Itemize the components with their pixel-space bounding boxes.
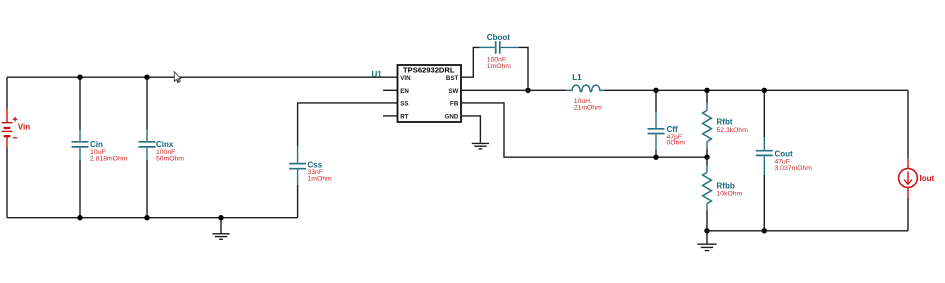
junction Rfbt top <box>704 88 709 93</box>
svg-text:RT: RT <box>400 114 408 121</box>
wire Iout bottom to ground rail <box>907 198 909 231</box>
wire left rail lower (Vin- to ground rail) <box>6 148 8 218</box>
wire VOUT net top (L1 to load corner) <box>605 89 908 91</box>
ground input rail <box>212 218 229 240</box>
ground U1 GND <box>472 143 489 149</box>
label Cboot value <box>487 33 512 70</box>
svg-text:Cin: Cin <box>90 140 103 149</box>
label Rfbt value <box>717 118 749 135</box>
label Vin <box>18 123 30 132</box>
inductor L1 <box>567 85 606 92</box>
label Rfbb value <box>717 182 743 198</box>
label L1 value <box>572 73 602 112</box>
label Cff value <box>667 125 686 147</box>
wire VOUT right drop to Iout <box>907 90 909 158</box>
svg-text:L1: L1 <box>572 73 582 82</box>
pin BST <box>446 75 459 82</box>
wire SW net to L1 <box>461 89 567 91</box>
wire VIN net: top rail from source to U1 VIN <box>7 76 398 78</box>
svg-text:VIN: VIN <box>400 75 411 82</box>
junction FB node <box>704 155 709 160</box>
junction Rfbb bottom <box>704 228 709 233</box>
pin GND <box>445 114 459 121</box>
junction Cff top <box>653 88 658 93</box>
junction SW/Cboot <box>525 88 530 93</box>
label Cinx value <box>156 140 184 162</box>
capacitor Cboot <box>480 41 519 54</box>
pin SS <box>400 101 408 108</box>
wire input ground rail (bottom left) <box>7 217 298 219</box>
capacitor Cout <box>756 90 773 231</box>
junction Cout bottom <box>762 228 767 233</box>
svg-text:Rfbt: Rfbt <box>717 118 733 127</box>
label Cout value <box>775 150 813 172</box>
junction Cinx bottom <box>144 215 149 220</box>
svg-text:GND: GND <box>445 114 459 121</box>
capacitor Cinx <box>139 77 156 218</box>
pin RT <box>400 114 408 121</box>
svg-text:0Ohm: 0Ohm <box>667 140 686 147</box>
svg-text:Cboot: Cboot <box>487 33 510 42</box>
svg-text:10kOhm: 10kOhm <box>717 191 743 198</box>
wire BST net to Cboot <box>461 47 480 77</box>
svg-text:Vin: Vin <box>18 123 30 132</box>
svg-text:Css: Css <box>308 160 323 169</box>
wire output ground rail (bottom right) <box>707 230 908 232</box>
wire SS net (U1.SS to Css) <box>298 103 398 146</box>
pin SW <box>448 88 458 95</box>
svg-text:Cinx: Cinx <box>156 140 174 149</box>
svg-text:FB: FB <box>450 101 459 108</box>
op-amp U1 TPS62932DRL body <box>398 65 462 122</box>
svg-text:1mOhm: 1mOhm <box>487 63 512 70</box>
junction Cinx top <box>144 75 149 80</box>
mouse cursor <box>174 72 181 83</box>
capacitor Cin <box>72 77 89 218</box>
svg-text:Rfbb: Rfbb <box>717 182 735 191</box>
capacitor Cff <box>648 90 665 157</box>
svg-text:SW: SW <box>448 88 458 95</box>
junction ground tap <box>218 215 223 220</box>
wire FB net (U1.FB to divider) <box>461 103 707 157</box>
wire GND pin to ground <box>461 116 480 143</box>
wire Cboot to SW node <box>519 47 529 90</box>
svg-text:2.818mOhm: 2.818mOhm <box>90 155 128 162</box>
label Cin value <box>90 140 128 162</box>
junction Cout top <box>762 88 767 93</box>
wire RT stub <box>383 115 398 117</box>
svg-text:1mOhm: 1mOhm <box>308 176 333 183</box>
resistor Rfbt <box>703 90 712 157</box>
svg-text:Cff: Cff <box>667 125 678 134</box>
svg-text:Cout: Cout <box>775 150 794 159</box>
junction Cin top <box>77 75 82 80</box>
svg-text:BST: BST <box>446 75 459 82</box>
ground output <box>697 231 716 251</box>
svg-text:SS: SS <box>400 101 408 108</box>
svg-text:U1: U1 <box>372 70 383 79</box>
current source Iout <box>899 158 918 198</box>
label U1 <box>372 70 383 79</box>
junction Cin bottom <box>77 215 82 220</box>
wire left rail upper (Vin+ to top rail) <box>6 77 8 108</box>
label Iout <box>920 174 935 183</box>
voltage source Vin <box>2 109 18 148</box>
junction Cff bottom <box>653 155 658 160</box>
pin EN <box>400 88 409 95</box>
svg-text:TPS62932DRL: TPS62932DRL <box>403 66 455 75</box>
svg-text:21mOhm: 21mOhm <box>574 105 602 112</box>
svg-text:EN: EN <box>400 88 409 95</box>
svg-text:52.3kOhm: 52.3kOhm <box>717 127 749 134</box>
label Css value <box>308 160 333 182</box>
wire EN stub <box>383 89 398 91</box>
svg-text:50mOhm: 50mOhm <box>156 155 184 162</box>
svg-text:3.037mOhm: 3.037mOhm <box>775 165 813 172</box>
pin VIN <box>400 75 411 82</box>
svg-text:Iout: Iout <box>920 174 935 183</box>
pin FB <box>450 101 459 108</box>
resistor Rfbb <box>703 157 712 231</box>
capacitor Css <box>289 146 306 218</box>
